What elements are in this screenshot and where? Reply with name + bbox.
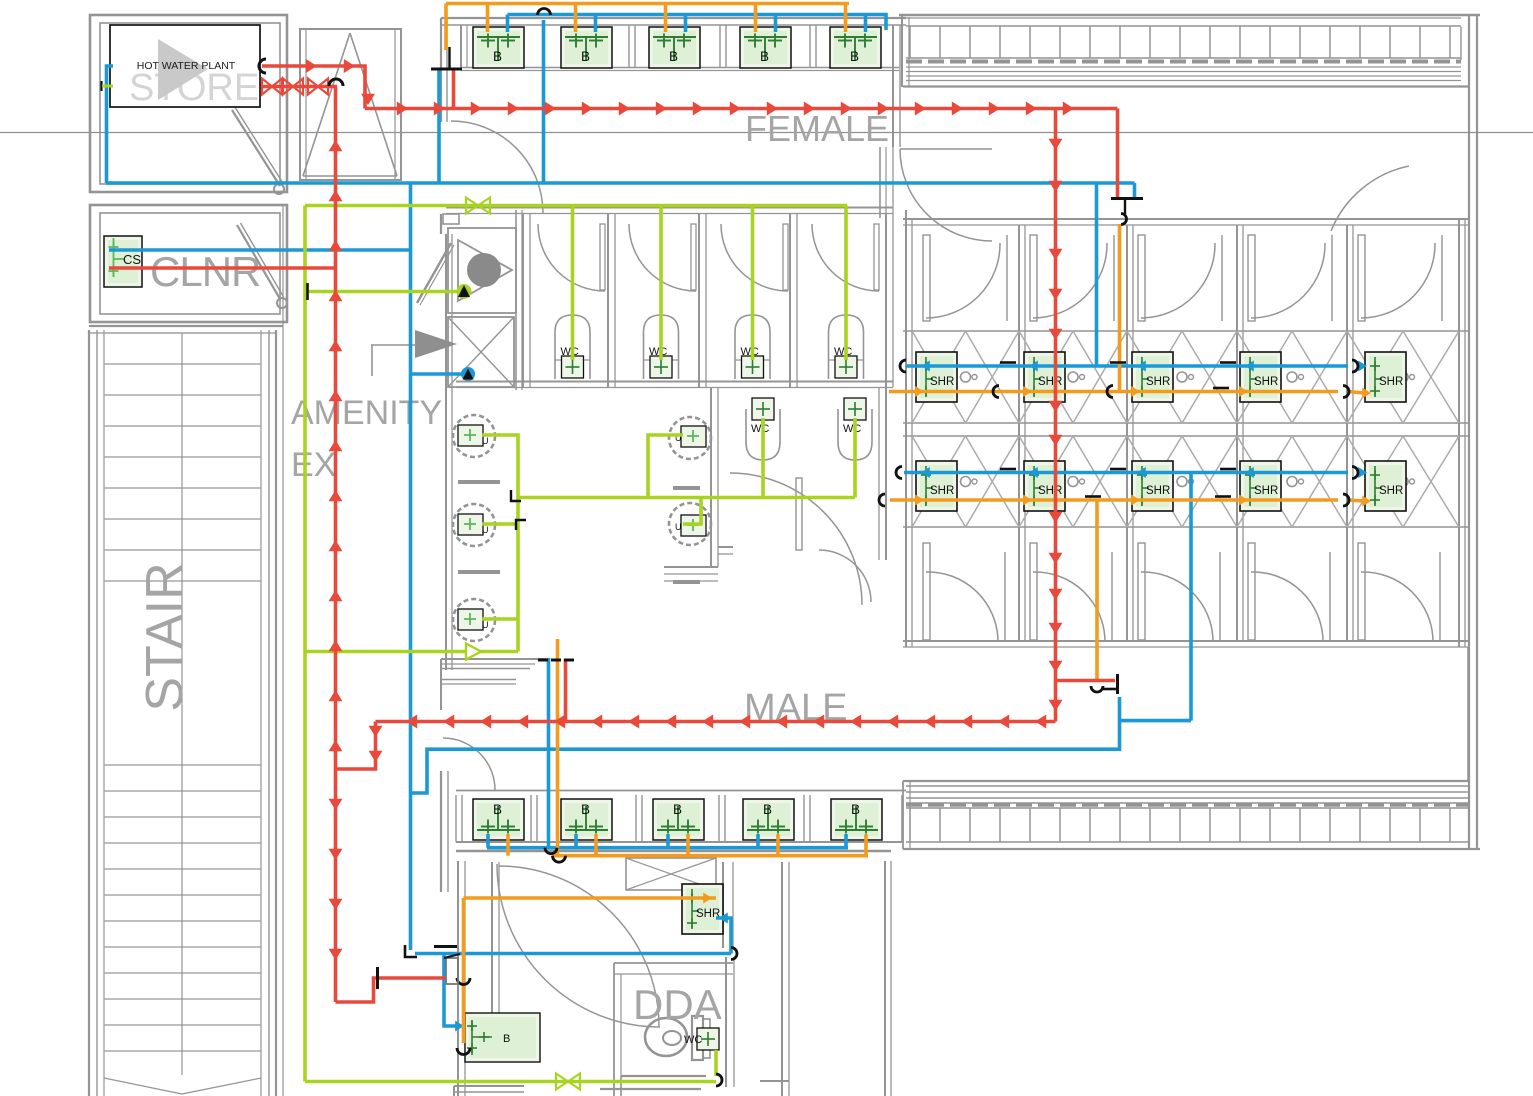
svg-text:B: B	[850, 49, 859, 64]
svg-text:B: B	[760, 49, 769, 64]
svg-text:WC: WC	[649, 346, 667, 358]
svg-text:SHR: SHR	[930, 485, 954, 497]
svg-text:B: B	[673, 802, 682, 817]
svg-text:SHR: SHR	[1146, 485, 1170, 497]
svg-text:CLNR: CLNR	[150, 248, 260, 295]
svg-text:WC: WC	[834, 346, 852, 358]
svg-text:U: U	[482, 436, 489, 446]
svg-text:HOT WATER PLANT: HOT WATER PLANT	[137, 60, 236, 72]
svg-text:SHR: SHR	[930, 376, 954, 388]
svg-text:SHR: SHR	[1146, 376, 1170, 388]
svg-text:B: B	[493, 802, 502, 817]
svg-text:SHR: SHR	[1379, 376, 1403, 388]
svg-text:B: B	[503, 1033, 510, 1045]
svg-text:CS: CS	[123, 252, 141, 267]
svg-text:B: B	[581, 802, 590, 817]
svg-text:B: B	[763, 802, 772, 817]
svg-text:B: B	[493, 49, 502, 64]
svg-text:STAIR: STAIR	[136, 562, 194, 711]
svg-text:SHR: SHR	[1379, 485, 1403, 497]
svg-text:WC: WC	[843, 423, 861, 435]
svg-text:EX: EX	[291, 446, 336, 484]
svg-text:B: B	[581, 49, 590, 64]
svg-text:FEMALE: FEMALE	[745, 108, 889, 149]
svg-text:AMENITY: AMENITY	[291, 394, 442, 432]
svg-text:B: B	[851, 802, 860, 817]
svg-text:SHR: SHR	[1254, 485, 1278, 497]
svg-text:SHR: SHR	[1038, 376, 1062, 388]
svg-text:WC: WC	[684, 1034, 702, 1046]
svg-text:WC: WC	[561, 346, 579, 358]
svg-text:WC: WC	[751, 423, 769, 435]
svg-text:U: U	[675, 522, 682, 532]
svg-text:B: B	[669, 49, 678, 64]
svg-text:U: U	[482, 525, 489, 535]
svg-text:U: U	[482, 620, 489, 630]
svg-text:SHR: SHR	[1038, 485, 1062, 497]
svg-text:SHR: SHR	[1254, 376, 1278, 388]
svg-text:DDA: DDA	[633, 981, 722, 1028]
svg-text:WC: WC	[741, 346, 759, 358]
